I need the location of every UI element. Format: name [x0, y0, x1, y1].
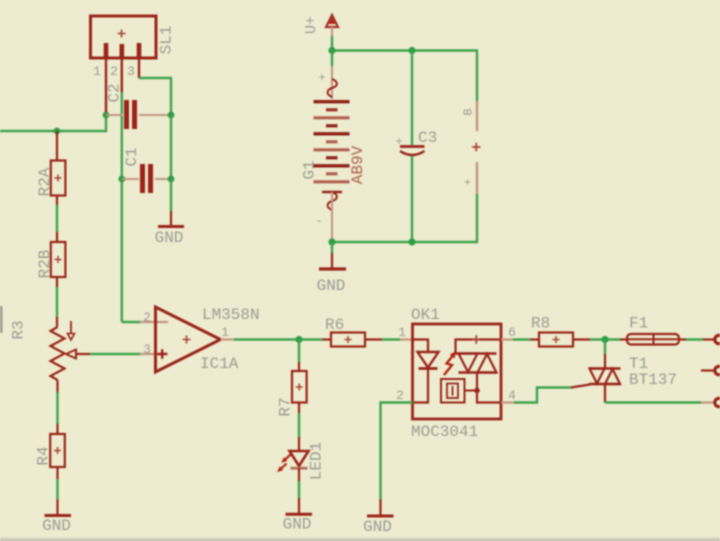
connector SL1 body: [91, 16, 157, 58]
label G1: [301, 160, 319, 179]
junction inside OK1 at gate: [474, 388, 480, 394]
wire: R3 wiper to op-amp pin3: [90, 353, 140, 355]
label R4: [35, 446, 53, 465]
label R3: [10, 320, 28, 339]
triac T1: [589, 369, 621, 403]
OK1 pin number 4: [508, 388, 516, 403]
svg-text:-: -: [315, 214, 322, 228]
OK1 internal light arrow: [444, 352, 456, 375]
op-amp IC1A pin3 stub: [140, 353, 168, 355]
svg-text:BT137: BT137: [629, 371, 677, 389]
svg-text:OK1: OK1: [411, 306, 440, 324]
wire: op-amp output to R6: [234, 338, 322, 340]
svg-text:+: +: [395, 135, 402, 149]
svg-text:+: +: [462, 178, 476, 185]
capacitor C1: [122, 164, 171, 193]
net label fragment at left edge: [0, 306, 3, 333]
wire: SL1 pin3 over to C1/C2 right column: [139, 78, 171, 112]
label R7: [277, 397, 295, 416]
label SL1: [158, 26, 176, 55]
pad 1 at right edge: [715, 335, 720, 343]
wire: op-amp pin2 input from vertical: [122, 321, 140, 323]
op-amp pin number 1: [221, 325, 229, 340]
ground under R4: [42, 499, 71, 535]
OK1 pin6 stub: [501, 338, 513, 340]
svg-text:MOC3041: MOC3041: [411, 423, 478, 441]
resistor R2B: [51, 242, 66, 277]
junction at (299,339.5): output node: [295, 336, 302, 343]
junction at (605,339.5): [601, 336, 608, 343]
junction at (171,115): C2 right node: [168, 112, 175, 119]
label R8: [531, 315, 550, 333]
wire: R4 to ground: [56, 467, 58, 499]
label F1: [629, 315, 648, 333]
pad lead to pad 1: [703, 338, 714, 340]
op-amp U IC1A pin2 stub: [140, 321, 168, 323]
svg-text:GND: GND: [155, 229, 184, 247]
OK1 pin4 stub: [501, 401, 514, 403]
wire: R3 to R4: [56, 380, 58, 434]
capacitor C2: [106, 100, 171, 129]
svg-text:AB9V: AB9V: [349, 145, 367, 184]
svg-text:SL1: SL1: [158, 26, 176, 55]
svg-text:R2B: R2B: [36, 250, 54, 279]
wire: R8 to F1 with junction: [590, 338, 620, 340]
svg-text:GND: GND: [363, 518, 392, 536]
V+ supply symbol: [326, 15, 338, 36]
svg-text:C3: C3: [418, 129, 437, 147]
svg-text:2: 2: [396, 388, 404, 403]
svg-text:+: +: [318, 71, 325, 85]
op-amp pin number 3: [143, 342, 151, 357]
pad 2 at right edge: [715, 366, 720, 374]
T1 gate lead: [571, 385, 590, 388]
svg-text:R3: R3: [10, 320, 28, 339]
ground under LED1: [283, 498, 312, 534]
pad 3 at right edge: [715, 398, 720, 406]
label MOC3041: [411, 423, 478, 441]
resistor R6: [322, 333, 382, 347]
wire: SL1 pin2 long vertical down to op-amp pin2 row: [121, 92, 123, 322]
jumper/battery-terminal in right branch: top pin: [462, 101, 478, 131]
svg-text:U+: U+: [303, 16, 320, 34]
wire: C3 bottom lead: [411, 156, 413, 242]
svg-text:R7: R7: [277, 397, 295, 416]
resistor R4: [50, 434, 65, 467]
wire: R2B to R3: [56, 277, 58, 327]
svg-text:GND: GND: [283, 516, 312, 534]
svg-text:2: 2: [110, 64, 118, 79]
OK1 pin number 2: [396, 388, 404, 403]
jumper origin cross: [472, 143, 481, 152]
wire: C3 top lead: [411, 51, 413, 146]
wire: V+ down to top rail: [331, 36, 333, 51]
svg-text:G1: G1: [301, 160, 319, 179]
potentiometer R3 (zigzag with wiper): [51, 321, 91, 380]
label C3: [418, 129, 437, 147]
svg-text:LED1: LED1: [308, 442, 326, 480]
wire: R2A to R2B: [56, 196, 58, 243]
resistor R7: [292, 371, 307, 403]
SL1 pin 1 wire: [105, 58, 107, 112]
wire: R6 to OK1 pin1: [382, 338, 400, 340]
ground under C1: [155, 179, 184, 247]
svg-text:R8: R8: [531, 315, 550, 333]
op-amp pin number 2: [143, 310, 151, 325]
label BT137: [629, 371, 677, 389]
svg-text:3: 3: [127, 64, 135, 79]
SL1 pin 3 wire stub: [138, 58, 140, 78]
wire: horizontal net at left edge into R2A/SL1 node: [0, 115, 106, 131]
svg-text:C1: C1: [123, 147, 141, 166]
svg-text:1: 1: [221, 325, 229, 340]
junction at (412,50.5): C3 top: [408, 47, 415, 54]
junction at (105,115): C2 left node: [103, 112, 110, 119]
svg-text:1: 1: [93, 64, 101, 79]
optocoupler OK1 body: [413, 324, 502, 419]
SL1 pin number 2: [110, 64, 118, 79]
SL1 pin number 1: [93, 64, 101, 79]
ground under battery G1: [317, 253, 346, 295]
svg-text:6: 6: [508, 325, 516, 340]
battery G1 plates: [314, 102, 350, 182]
svg-text:4: 4: [508, 388, 516, 403]
wire: T1 MT1 to pad 3: [605, 401, 701, 403]
label R6: [325, 316, 344, 334]
jumper/battery-terminal bottom pin: [462, 162, 478, 194]
SL1 pin 2 wire stub: [121, 58, 123, 92]
svg-text:GND: GND: [42, 517, 71, 535]
OK1 origin cross: [472, 335, 481, 344]
svg-text:LM358N: LM358N: [202, 306, 260, 324]
SL1 pin number 3: [127, 64, 135, 79]
svg-text:GND: GND: [317, 277, 346, 295]
label C2: [106, 83, 124, 102]
svg-text:R6: R6: [325, 316, 344, 334]
label IC1A: [200, 355, 239, 373]
OK1 internal triac: [456, 340, 502, 403]
wire: T1 MT2 from junction: [604, 340, 606, 369]
svg-text:C2: C2: [106, 83, 124, 102]
OK1 pin number 6: [508, 325, 516, 340]
capacitor C3 (electrolytic): [395, 135, 424, 155]
op-amp IC1A: [156, 307, 221, 372]
wire: right branch down and along bottom rail: [332, 194, 477, 242]
svg-text:B: B: [462, 108, 476, 115]
svg-text:IC1A: IC1A: [200, 355, 239, 373]
svg-text:R2A: R2A: [36, 167, 54, 196]
junction at (122,179): C1 left node: [118, 176, 125, 183]
resistor R8: [530, 333, 590, 347]
wire: right column between C2 and C1: [170, 115, 172, 179]
wire: battery bottom to ground: [331, 242, 333, 253]
label AB9V: [349, 145, 367, 184]
wire: R7 top from output node: [298, 340, 300, 372]
wire: R7 to LED1: [298, 403, 300, 452]
label U+: [303, 16, 320, 34]
label T1: [629, 355, 648, 373]
label OK1: [411, 306, 440, 324]
label C1: [123, 147, 141, 166]
OK1 internal LED: [413, 340, 439, 403]
LED LED1: [277, 451, 309, 472]
pad lead to pad 2: [701, 369, 714, 371]
OK1 pin number 1: [398, 325, 406, 340]
label LM358N: [202, 306, 260, 324]
junction at (412,242): C3 bottom: [408, 238, 415, 245]
svg-text:1: 1: [398, 325, 406, 340]
ground under OK1 pin2: [363, 500, 393, 537]
OK1 zero-cross block: [441, 379, 477, 403]
label R2A: [36, 167, 54, 196]
wire: OK1 pin4 to T1 gate: [514, 388, 571, 403]
fuse F1: [620, 334, 686, 345]
resistor R2A: [51, 131, 66, 196]
svg-text:F1: F1: [629, 315, 648, 333]
OK1 pin2 wire to ground: [381, 403, 414, 500]
battery G1 top lead and clip hook: [318, 51, 336, 100]
wire: OK1 pin6 to R8: [513, 338, 530, 340]
pad lead to pad 3: [701, 401, 714, 403]
svg-text:2: 2: [143, 310, 151, 325]
wire: LED1 to ground: [298, 468, 300, 498]
junction at (332,242): battery bottom: [328, 238, 335, 245]
junction at (332,50.5): [328, 47, 335, 54]
svg-text:R4: R4: [35, 446, 53, 465]
op-amp output stub: [221, 338, 235, 340]
battery G1 bottom clip hook: [315, 192, 342, 239]
OK1 pin1 stub: [400, 338, 414, 340]
label R2B: [36, 250, 54, 279]
wire: F1 to output pad 1: [686, 338, 703, 340]
svg-text:3: 3: [143, 342, 151, 357]
junction at (171,179): C1 right node: [168, 176, 175, 183]
label LED1: [308, 442, 326, 480]
wire: top rail across battery, C3, right branch: [332, 51, 477, 102]
junction at (57,131): [54, 128, 61, 135]
